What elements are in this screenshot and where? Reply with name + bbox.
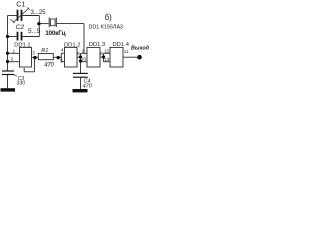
svg-text:C2: C2 <box>16 24 25 31</box>
svg-text:DD1 К155ЛА3: DD1 К155ЛА3 <box>89 25 124 31</box>
gate DD1.3 body <box>87 47 100 67</box>
svg-text:3: 3 <box>32 50 35 55</box>
wire DD1.3 pin9 <box>81 52 88 54</box>
svg-text:4: 4 <box>61 48 64 53</box>
gate DD1.4 body <box>110 47 123 67</box>
node rail/C2 <box>6 35 9 38</box>
svg-text:DD1.4: DD1.4 <box>113 42 130 48</box>
gate DD1.2 body <box>65 47 78 67</box>
node B upper <box>79 55 82 58</box>
capacitor C1 plates (trimmer 3...25) <box>17 10 23 21</box>
wire feedback vertical <box>83 24 85 54</box>
node DD1.2 input <box>57 56 60 59</box>
svg-text:330: 330 <box>16 81 25 87</box>
wire DD1.4 output <box>123 56 140 58</box>
wire C3 stem <box>7 75 9 89</box>
resistor R1 body <box>38 54 53 60</box>
svg-text:9: 9 <box>82 48 85 53</box>
crystal ZQ1 100kHz <box>49 18 56 28</box>
wire DD1.2 input split bar <box>60 53 62 61</box>
wire C1 right <box>22 15 39 17</box>
wire C2 right <box>22 36 39 38</box>
wire DD1.2 output <box>77 56 81 58</box>
capacitor C1 trimmer arrow <box>13 7 30 22</box>
capacitor C4 plates <box>73 73 88 77</box>
wire stub bottom <box>24 71 34 73</box>
wire crystal right <box>57 23 84 25</box>
svg-text:11: 11 <box>124 49 129 54</box>
svg-text:5: 5 <box>60 59 63 64</box>
wire stub up <box>23 68 25 72</box>
op-amp gate DD1.1 body <box>20 47 32 67</box>
svg-text:5...5: 5...5 <box>28 28 41 35</box>
capacitor C2 plates <box>17 32 23 41</box>
wire DD1.2 pin5 <box>61 61 64 63</box>
wire DD1.4 pin12 <box>104 52 111 54</box>
wire node A vertical <box>38 16 40 37</box>
wire left rail <box>7 16 9 72</box>
svg-text:C1: C1 <box>16 1 25 8</box>
output terminal <box>137 55 142 60</box>
svg-text:10: 10 <box>81 56 87 61</box>
wire crystal left <box>39 23 48 25</box>
node rail/pin2 <box>6 60 9 63</box>
svg-text:470: 470 <box>83 83 92 89</box>
svg-text:12: 12 <box>104 49 110 54</box>
svg-text:DD1.3: DD1.3 <box>89 42 105 48</box>
wire DD1.2 pin4 <box>61 52 64 54</box>
wire DD1.3 pin10 <box>81 61 88 63</box>
svg-text:8: 8 <box>100 51 103 56</box>
svg-text:3...25: 3...25 <box>31 10 47 16</box>
node junction dots <box>6 22 142 63</box>
wire C4 stem <box>80 77 82 89</box>
svg-text:б): б) <box>105 13 113 22</box>
wire DD1.4 pin13 <box>104 61 111 63</box>
wire DD1.1 pin2 <box>8 61 20 63</box>
wire node B bar <box>80 53 82 73</box>
wire DD1.4 input split bar <box>103 53 105 61</box>
wire output stub down <box>34 57 36 72</box>
wire DD1.3 output <box>100 56 104 58</box>
svg-text:2: 2 <box>11 57 14 62</box>
node DD1.4 input <box>102 55 105 58</box>
svg-text:DD1.2: DD1.2 <box>64 42 80 48</box>
ground under C3 <box>1 88 16 91</box>
svg-text:1: 1 <box>13 48 16 53</box>
C3 label leader <box>14 75 17 77</box>
capacitor C3 plates <box>2 71 14 75</box>
node rail/pin1 <box>6 52 9 55</box>
svg-text:6: 6 <box>77 51 80 56</box>
svg-text:100кГц: 100кГц <box>45 30 65 37</box>
wire DD1.1 pin1 <box>8 52 20 54</box>
wire R1 right <box>53 56 61 58</box>
svg-text:R1: R1 <box>41 48 48 54</box>
wire DD1.1 output <box>32 56 39 58</box>
node A junction <box>37 22 40 25</box>
svg-text:DD1.1: DD1.1 <box>14 43 30 49</box>
C2 label leader <box>11 19 15 23</box>
node B lower <box>79 59 82 62</box>
ground under C4 <box>73 89 88 92</box>
svg-text:Выход: Выход <box>131 46 150 52</box>
node DD1.1 output <box>33 56 36 59</box>
svg-text:13: 13 <box>104 57 110 62</box>
svg-text:470: 470 <box>44 62 54 69</box>
wire C1 left <box>8 15 17 17</box>
wire C2 left <box>8 36 17 38</box>
